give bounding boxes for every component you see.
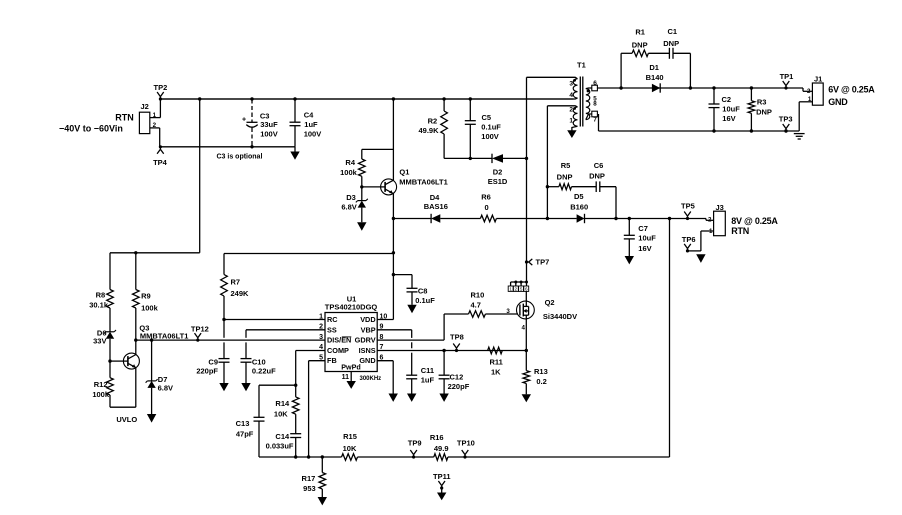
- svg-text:C6: C6: [594, 161, 604, 170]
- wire D7 to ground: [151, 388, 153, 414]
- label R3 values: [756, 97, 772, 116]
- svg-text:TP1: TP1: [780, 72, 794, 81]
- label Q2: [543, 298, 577, 321]
- svg-text:0.2: 0.2: [536, 377, 546, 386]
- svg-text:10uF: 10uF: [638, 234, 656, 243]
- zener diode D7: [147, 380, 155, 382]
- svg-text:D5: D5: [574, 192, 584, 201]
- svg-text:4.7: 4.7: [471, 301, 481, 310]
- label C1 values: [663, 27, 679, 48]
- resistor R2: [441, 111, 448, 134]
- svg-text:5: 5: [520, 287, 523, 292]
- svg-text:2: 2: [515, 287, 518, 292]
- svg-text:PwPd: PwPd: [341, 363, 361, 372]
- node VDD rail tap: [392, 251, 395, 254]
- svg-text:1: 1: [569, 117, 573, 124]
- ground below J3 pin1: [696, 254, 705, 263]
- label Q3: [139, 323, 188, 340]
- svg-text:T1: T1: [577, 60, 586, 69]
- node C6 bottom junction: [614, 217, 617, 220]
- resistor R17: [319, 473, 326, 490]
- label C4 values: [304, 111, 322, 139]
- svg-text:1: 1: [808, 96, 812, 103]
- node FB bottom: [307, 455, 310, 458]
- capacitor C5: [465, 120, 476, 122]
- svg-text:6: 6: [593, 80, 597, 87]
- svg-text:49.9K: 49.9K: [418, 126, 439, 135]
- svg-text:D2: D2: [493, 167, 503, 176]
- label R15 values: [343, 432, 357, 453]
- label R10 values: [471, 290, 485, 309]
- ground below C10: [241, 383, 250, 391]
- wire C12 lead: [443, 351, 445, 376]
- label C11 values: [421, 366, 435, 385]
- wire UVLO rail: [110, 253, 200, 290]
- svg-text:R6: R6: [481, 193, 491, 202]
- T1 winding 2-1 phase dot: [573, 107, 576, 110]
- svg-text:4: 4: [569, 92, 573, 99]
- svg-text:300KHz: 300KHz: [360, 376, 382, 382]
- svg-text:2: 2: [807, 88, 811, 95]
- test point TP9: [408, 439, 422, 459]
- wire R7 to RC: [223, 296, 225, 359]
- ground below C12: [439, 394, 448, 402]
- resistor R1: [632, 50, 648, 57]
- label D5 values: [570, 192, 588, 212]
- resistor R12: [107, 378, 114, 395]
- svg-text:−40V to −60Vin: −40V to −60Vin: [59, 124, 123, 134]
- svg-text:1: 1: [709, 228, 713, 235]
- capacitor C11: [406, 375, 417, 393]
- J2 pin 1: [150, 112, 161, 119]
- svg-text:R2: R2: [428, 117, 438, 126]
- svg-text:C3 is optional: C3 is optional: [217, 154, 263, 161]
- wire R12 to UVLO bottom: [109, 395, 111, 407]
- node R2 top: [442, 97, 445, 100]
- U1 pin names left: [327, 315, 351, 365]
- svg-text:R11: R11: [490, 358, 503, 367]
- svg-text:GND: GND: [828, 97, 848, 107]
- label R2 values: [418, 117, 439, 136]
- svg-text:1uF: 1uF: [304, 120, 318, 129]
- label Q1: [399, 167, 447, 186]
- svg-text:8V @ 0.25A: 8V @ 0.25A: [731, 216, 778, 226]
- svg-text:C10: C10: [252, 358, 266, 367]
- svg-text:100k: 100k: [340, 168, 358, 177]
- svg-text:49.9: 49.9: [434, 444, 449, 453]
- label C8 values: [415, 287, 435, 305]
- svg-text:R13: R13: [534, 367, 548, 376]
- wire R5 lead: [547, 186, 559, 188]
- svg-text:C4: C4: [304, 111, 314, 120]
- svg-text:Q1: Q1: [399, 167, 409, 176]
- node Q1 collector rail tap: [392, 97, 395, 100]
- svg-text:6V @ 0.25A: 6V @ 0.25A: [828, 85, 875, 95]
- svg-text:R12: R12: [94, 380, 108, 389]
- svg-text:100k: 100k: [141, 303, 159, 312]
- diode D4 BAS16: [431, 214, 440, 223]
- svg-text:33V: 33V: [93, 336, 106, 345]
- svg-text:TP8: TP8: [450, 332, 464, 341]
- wire D5 anode lead: [547, 218, 576, 220]
- svg-text:47pF: 47pF: [236, 429, 254, 438]
- svg-text:R10: R10: [471, 290, 485, 299]
- wire J2 pin2 to bottom rail: [159, 128, 161, 147]
- transistor Q2 Si3440DV: [517, 301, 535, 319]
- svg-text:TP3: TP3: [779, 114, 793, 123]
- wire R17 lead: [321, 457, 323, 473]
- label C3 values: [260, 111, 278, 138]
- svg-text:RTN: RTN: [731, 226, 749, 236]
- zener diode D6: [106, 331, 114, 333]
- svg-text:0.033uF: 0.033uF: [266, 441, 294, 450]
- node Q3 base: [108, 359, 111, 362]
- svg-text:2: 2: [153, 122, 157, 129]
- svg-text:C13: C13: [236, 419, 250, 428]
- svg-text:R17: R17: [302, 474, 316, 483]
- node Q1 emitter / D4 net: [392, 217, 395, 220]
- ground below C9: [219, 383, 228, 391]
- node R9 top: [134, 251, 137, 254]
- label R14 values: [274, 399, 290, 418]
- svg-text:DNP: DNP: [756, 107, 772, 116]
- resistor R10: [469, 311, 486, 318]
- transistor Q1 MMBTA06LT1: [381, 179, 397, 195]
- U1 pin names right: [355, 315, 376, 365]
- wire 8V rail: [585, 219, 714, 221]
- wire R9 to collector node: [135, 308, 137, 355]
- svg-text:R14: R14: [275, 399, 290, 408]
- svg-text:TP9: TP9: [408, 439, 422, 448]
- svg-text:R9: R9: [141, 292, 151, 301]
- test point TP2: [154, 83, 168, 101]
- test point TP1: [780, 72, 794, 90]
- connector J2: [139, 102, 149, 134]
- diode D5 B160: [577, 214, 585, 223]
- wire D3 top lead: [361, 187, 363, 201]
- svg-text:220pF: 220pF: [448, 382, 470, 391]
- svg-text:B160: B160: [570, 202, 588, 211]
- svg-text:C1: C1: [668, 27, 678, 36]
- svg-text:TP12: TP12: [191, 325, 209, 334]
- label C13 values: [236, 419, 254, 438]
- wire D4 R6 net: [393, 218, 547, 220]
- node R5 tap: [546, 185, 549, 188]
- svg-text:953: 953: [303, 484, 316, 493]
- wire clamp bottom: [444, 157, 526, 160]
- J2 pin 2: [150, 122, 160, 129]
- ground below C7: [625, 256, 634, 264]
- wire feedback rail: [259, 456, 670, 458]
- Q2 drain pin boxes 1 2 5 6: [508, 286, 529, 292]
- capacitor C13: [254, 417, 265, 457]
- svg-text:BAS16: BAS16: [424, 202, 448, 211]
- J3 pin 1 lead: [701, 228, 714, 251]
- svg-text:R4: R4: [345, 158, 355, 167]
- wire C5 bottom lead: [469, 124, 471, 158]
- node input rail / UVLO feed: [198, 97, 201, 100]
- ground below C4: [290, 147, 299, 160]
- svg-text:8: 8: [593, 101, 597, 108]
- svg-text:Si3440DV: Si3440DV: [543, 312, 577, 321]
- svg-text:D1: D1: [649, 63, 659, 72]
- wire T1 pin2 lead: [547, 106, 577, 107]
- transformer T1 primary winding 2-1: [573, 107, 577, 126]
- wire VBP net: [377, 330, 412, 375]
- wire snubber right down: [689, 53, 691, 88]
- capacitor C8: [407, 288, 418, 305]
- capacitor C12: [439, 375, 450, 393]
- svg-text:1: 1: [509, 287, 512, 292]
- capacitor C3: [242, 97, 258, 148]
- label R6 values: [481, 193, 491, 212]
- wire Q1 emitter down: [392, 194, 394, 320]
- diode D1 B140: [652, 84, 660, 93]
- wire UVLO bottom: [110, 406, 136, 408]
- wire R17 to ground: [321, 489, 323, 497]
- ground below D7: [147, 414, 156, 423]
- svg-text:R3: R3: [757, 97, 767, 106]
- wire R1 to C1: [648, 52, 669, 54]
- svg-text:3: 3: [319, 334, 323, 341]
- svg-text:4: 4: [522, 324, 526, 331]
- svg-text:RTN: RTN: [115, 112, 134, 122]
- node snubber right: [689, 86, 692, 89]
- ground below R17: [318, 497, 327, 505]
- svg-text:7: 7: [593, 116, 597, 123]
- earth ground at J1: [794, 133, 805, 135]
- capacitor C6: [595, 181, 597, 192]
- svg-text:R8: R8: [96, 291, 106, 300]
- label R8 values: [89, 291, 109, 310]
- svg-text:C2: C2: [722, 95, 732, 104]
- wire T1 pin2 vertical: [546, 106, 548, 219]
- node 8V return tap: [668, 217, 671, 220]
- svg-text:11: 11: [342, 374, 350, 381]
- label C6 values: [589, 161, 605, 180]
- svg-text:6: 6: [525, 287, 528, 292]
- label D3 values: [341, 193, 356, 212]
- svg-text:C9: C9: [208, 358, 218, 367]
- ground below D3: [357, 222, 366, 231]
- wire C1 to right branch: [673, 52, 690, 54]
- wire D6 to base node: [109, 339, 111, 361]
- ground below R13: [522, 394, 531, 402]
- diode D2 ES1D: [492, 154, 503, 163]
- resistor R9: [133, 290, 140, 309]
- capacitor C4: [290, 97, 301, 147]
- wire snubber left up: [620, 53, 622, 88]
- wire Q3 base: [110, 360, 124, 362]
- test point TP5: [681, 201, 695, 220]
- wire C6 to D5 cathode: [600, 187, 616, 219]
- node source sense: [525, 349, 528, 352]
- node snubber left: [619, 86, 622, 89]
- svg-text:16V: 16V: [722, 114, 735, 123]
- test point TP11: [433, 472, 451, 500]
- node Q3 collector / R9 / EN net: [134, 338, 137, 341]
- label D4 values: [424, 193, 448, 211]
- label D6 values: [93, 328, 106, 345]
- label R11 values: [490, 358, 503, 377]
- wire R4 to base node: [361, 176, 363, 187]
- svg-text:6.8V: 6.8V: [341, 203, 356, 212]
- wire J2 pin1 to top rail: [159, 99, 161, 118]
- resistor R16: [434, 454, 448, 461]
- label C14 values: [266, 432, 294, 450]
- label D2 values: [488, 167, 508, 186]
- wire Q1 collector: [392, 99, 394, 180]
- svg-text:Q2: Q2: [545, 298, 555, 307]
- svg-text:C8: C8: [418, 287, 428, 296]
- svg-text:100V: 100V: [304, 130, 322, 139]
- wire Q2 source: [525, 315, 527, 350]
- label R16 values: [430, 433, 449, 453]
- test point TP3: [779, 114, 793, 132]
- wire drain vertical: [526, 158, 528, 282]
- wire GND net: [377, 361, 393, 394]
- svg-text:TP11: TP11: [433, 472, 451, 481]
- resistor R15: [342, 454, 358, 461]
- label R13 values: [534, 367, 548, 386]
- transformer T1 secondary winding: [586, 89, 590, 120]
- label D7 values: [158, 375, 173, 393]
- node R17 tap: [321, 455, 324, 458]
- capacitor C1: [668, 48, 670, 59]
- svg-text:UVLO: UVLO: [116, 415, 137, 424]
- U1 pin 11 ground: [347, 372, 356, 389]
- node Q1 base: [360, 185, 363, 188]
- wire D3 to ground: [361, 208, 363, 223]
- svg-text:J1: J1: [814, 75, 822, 84]
- svg-text:6.8V: 6.8V: [158, 384, 173, 393]
- T1 pin6 pad: [586, 85, 598, 91]
- svg-text:100k: 100k: [92, 390, 110, 399]
- resistor R13: [523, 371, 530, 384]
- wire 6V rail: [597, 88, 812, 91]
- test point TP4: [153, 145, 168, 167]
- test point TP10: [457, 439, 475, 459]
- wire source to R13: [525, 351, 527, 371]
- svg-text:R5: R5: [561, 161, 571, 170]
- wire UVLO feed vertical: [199, 99, 201, 253]
- svg-text:C14: C14: [275, 432, 290, 441]
- wire base node to R12: [109, 361, 111, 378]
- svg-text:0.1uF: 0.1uF: [415, 296, 435, 305]
- wire pin3 vertical to clamp: [526, 77, 528, 158]
- svg-text:3: 3: [569, 81, 573, 88]
- svg-text:VBP: VBP: [361, 325, 376, 334]
- node D7 tap: [150, 338, 153, 341]
- label C2 values: [722, 95, 741, 123]
- T1 core: [580, 77, 583, 127]
- svg-text:100V: 100V: [260, 130, 278, 139]
- svg-text:VDD: VDD: [360, 315, 375, 324]
- svg-text:FB: FB: [327, 356, 337, 365]
- svg-text:ISNS: ISNS: [359, 346, 376, 355]
- svg-text:C5: C5: [482, 113, 492, 122]
- svg-text:10K: 10K: [274, 409, 288, 418]
- capacitor C9: [219, 359, 230, 383]
- resistor R5: [559, 184, 572, 190]
- test point TP8: [450, 332, 464, 352]
- svg-text:C7: C7: [638, 224, 648, 233]
- node C12 tap: [442, 349, 445, 352]
- wire Q2 gate: [485, 313, 518, 315]
- svg-text:TPS40210DGQ: TPS40210DGQ: [325, 303, 378, 312]
- wire C5 top lead: [469, 99, 471, 121]
- label C7 values: [638, 224, 656, 253]
- wire T1 pin1 to ground: [572, 126, 578, 130]
- label R7 values: [231, 277, 250, 298]
- label R5 values: [557, 161, 573, 182]
- svg-text:30.1k: 30.1k: [89, 301, 109, 310]
- wire R3 bottom lead: [750, 113, 752, 131]
- svg-text:RC: RC: [327, 315, 338, 324]
- svg-text:0.22uF: 0.22uF: [252, 366, 276, 375]
- svg-text:16V: 16V: [638, 244, 651, 253]
- label C12 values: [448, 372, 470, 390]
- wire R2 top lead: [443, 99, 445, 111]
- T1 winding 3-4 phase dot: [573, 79, 576, 82]
- resistor R4: [359, 159, 366, 176]
- resistor R3: [748, 101, 755, 114]
- test point TP12: [191, 325, 209, 342]
- label R4 values: [340, 158, 358, 177]
- node C5 top: [469, 97, 472, 100]
- wire 8V return vertical: [669, 219, 671, 458]
- wire EN net to U1 pin3: [136, 339, 325, 341]
- wire T1 pin3 lead: [527, 77, 578, 79]
- node C8 tap: [392, 273, 395, 276]
- label R1 values: [632, 27, 648, 49]
- test point TP7: [525, 257, 549, 266]
- svg-text:2: 2: [569, 107, 573, 114]
- svg-text:TP4: TP4: [153, 158, 168, 167]
- resistor R7: [221, 275, 228, 297]
- capacitor C7: [624, 219, 635, 257]
- wire GDRV to R10: [444, 314, 468, 340]
- wire COMP net: [296, 351, 325, 386]
- svg-text:TP2: TP2: [154, 83, 168, 92]
- wire VDD right rail: [224, 254, 393, 275]
- wire C8 lead: [393, 275, 412, 289]
- wire VDD net: [377, 319, 393, 321]
- svg-text:MMBTA06LT1: MMBTA06LT1: [140, 331, 188, 340]
- label C10 values: [252, 358, 276, 376]
- wire R3 top lead: [750, 88, 752, 101]
- wire R14 to C14: [295, 414, 297, 434]
- wire R13 to ground: [525, 384, 527, 395]
- svg-text:0.1uF: 0.1uF: [481, 122, 501, 131]
- resistor R8: [107, 290, 114, 309]
- svg-text:R7: R7: [231, 277, 241, 286]
- wire T1 pin7 to return: [598, 114, 600, 131]
- svg-text:2: 2: [708, 217, 712, 224]
- svg-text:D4: D4: [430, 193, 440, 202]
- wire COMP to C13 branch: [259, 385, 296, 417]
- svg-text:100V: 100V: [481, 132, 499, 141]
- node COMP junction: [294, 384, 297, 387]
- capacitor C14: [290, 434, 301, 457]
- svg-text:+: +: [242, 117, 246, 124]
- resistor R14: [292, 397, 299, 414]
- svg-text:DNP: DNP: [632, 40, 648, 49]
- T1 pin7 pad: [586, 111, 598, 119]
- J1 pin 1 lead: [799, 96, 812, 131]
- node drain clamp junction: [525, 157, 528, 160]
- node C7 top: [628, 217, 631, 220]
